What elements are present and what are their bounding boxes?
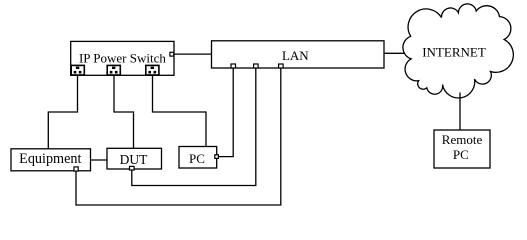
wire socket3 to PC <box>153 75 207 147</box>
svg-text:PC: PC <box>453 147 469 162</box>
LAN box <box>212 41 385 68</box>
LAN port square 2 <box>254 64 259 68</box>
PC box <box>179 147 217 169</box>
outlet socket 3 <box>146 65 159 75</box>
outlet socket 2 <box>107 65 120 75</box>
wire IPS port to LAN <box>174 53 212 55</box>
svg-text:PC: PC <box>189 151 205 166</box>
svg-text:Remote: Remote <box>442 132 483 147</box>
svg-text:LAN: LAN <box>282 48 309 63</box>
IP Power Switch LAN port square <box>170 52 174 56</box>
wire socket2 to DUT <box>114 75 134 148</box>
cloud INTERNET <box>403 4 513 98</box>
outlet socket 1 <box>71 65 84 75</box>
wire PC to LAN port1 <box>219 68 234 157</box>
LAN port square 1 <box>231 64 236 68</box>
svg-text:DUT: DUT <box>120 152 148 167</box>
Equipment box <box>11 149 91 171</box>
wire DUT to LAN port2 <box>132 68 256 186</box>
LAN port square 3 <box>279 64 284 68</box>
svg-text:INTERNET: INTERNET <box>422 44 486 59</box>
Equipment bottom port square <box>74 167 78 171</box>
DUT bottom port square <box>130 166 135 170</box>
IP Power Switch box <box>71 41 174 75</box>
wire LAN to cloud <box>384 52 405 54</box>
wire socket1 to Equipment <box>48 75 77 149</box>
svg-text:Equipment: Equipment <box>19 151 81 167</box>
wire cloud to Remote PC <box>459 93 461 131</box>
DUT box <box>107 148 162 169</box>
wire Equipment to LAN port3 <box>76 68 281 205</box>
PC right port square <box>215 155 219 159</box>
svg-text:IP Power Switch: IP Power Switch <box>79 51 166 66</box>
Remote PC box <box>434 130 490 168</box>
wire Equipment to DUT <box>91 159 108 161</box>
